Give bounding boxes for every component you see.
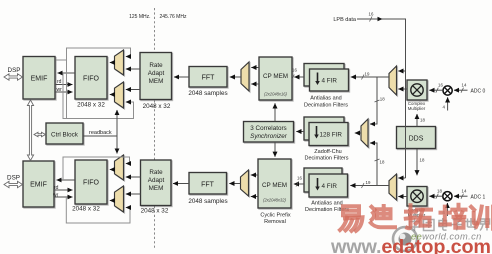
svg-text:18: 18 bbox=[420, 158, 425, 163]
wire mux M8 to 4 FIR (bottom), width 19 bbox=[350, 185, 389, 187]
svg-text:EMIF: EMIF bbox=[31, 76, 48, 83]
watermark char tuo bbox=[406, 205, 431, 228]
svg-text:EMIF: EMIF bbox=[30, 182, 47, 189]
svg-text:4 FIR: 4 FIR bbox=[322, 78, 338, 85]
svg-text:readback: readback bbox=[89, 130, 112, 136]
mux M5 (top FFT input select) bbox=[241, 62, 249, 91]
grey char dian bbox=[439, 218, 447, 230]
block 128 FIR Zadoff-Chu decimation filters (stacked) bbox=[304, 117, 348, 146]
wire FFT to Rate Adapt MEM (top) bbox=[174, 76, 189, 78]
svg-text:Removal: Removal bbox=[264, 219, 286, 225]
svg-text:FFT: FFT bbox=[202, 75, 216, 82]
svg-text:Synchronizer: Synchronizer bbox=[250, 133, 288, 140]
watermark char yi bbox=[340, 206, 363, 231]
wire synchronizer up to top CP MEM bbox=[274, 103, 276, 121]
bus DSP-EMIF bidirectional (top) bbox=[4, 74, 23, 80]
watermark char pei bbox=[440, 205, 465, 228]
block FIFO (bottom) bbox=[75, 160, 107, 204]
svg-text:CP MEM: CP MEM bbox=[262, 182, 287, 189]
wire mux M4 to FIFO (bottom) bbox=[110, 200, 115, 202]
watermark red chinese characters (drawn strokes) bbox=[340, 205, 492, 231]
block FFT (top) bbox=[189, 67, 227, 88]
wire mux M7 to 4 FIR (top), width 19 bbox=[351, 76, 389, 78]
svg-text:18: 18 bbox=[437, 189, 442, 194]
wire complex multiplier to mux M8 input 2 (bottom) bbox=[398, 196, 407, 198]
block 4 FIR antialias decimation filters (bottom, stacked) bbox=[304, 168, 348, 197]
svg-text:16: 16 bbox=[292, 68, 297, 73]
mux M9 (Zadoff-Chu path select) bbox=[361, 119, 368, 147]
wire mux M1 to FIFO (top) bbox=[110, 62, 115, 64]
wire 4 FIR to CP MEM (bottom), width 16 bbox=[294, 183, 304, 185]
svg-text:Antialias and: Antialias and bbox=[311, 200, 343, 206]
watermark char xun bbox=[471, 207, 492, 229]
wire branch to mux M9 top input, width 18 bbox=[370, 77, 377, 124]
svg-text:19: 19 bbox=[365, 72, 370, 77]
wire mux M6 to FFT (bottom) bbox=[229, 183, 240, 185]
svg-text:wr: wr bbox=[53, 193, 59, 199]
svg-text:16: 16 bbox=[369, 12, 374, 17]
svg-text:Adapt: Adapt bbox=[148, 70, 165, 77]
wire bypass loop over top FIFO into mux M1 bbox=[56, 48, 131, 60]
mux M7 (top FIR input select) bbox=[389, 66, 397, 95]
svg-text:FIFO: FIFO bbox=[83, 180, 99, 187]
svg-text:(2x2048x32): (2x2048x32) bbox=[263, 198, 286, 203]
svg-text:14: 14 bbox=[462, 189, 467, 194]
svg-text:16: 16 bbox=[438, 83, 443, 88]
block 3 Correlators Synchronizer bbox=[244, 122, 294, 143]
grey char shi bbox=[465, 218, 477, 230]
wire LPB into mux M8 input 1 bbox=[398, 177, 405, 179]
svg-text:2048 x 32: 2048 x 32 bbox=[72, 206, 100, 213]
wire CP MEM to mux M5 input 1 (top) bbox=[251, 67, 259, 69]
svg-text:2048 samples: 2048 samples bbox=[188, 198, 227, 205]
wire FIFO to EMIF data (top) bbox=[58, 72, 76, 74]
svg-text:wr: wr bbox=[57, 87, 63, 93]
svg-text:DSP: DSP bbox=[7, 175, 20, 182]
wire ADC 1 input, width 14 bbox=[454, 195, 468, 197]
mux M8 (bottom FIR input select) bbox=[389, 174, 397, 200]
mux M2 (top FIFO input select 2) bbox=[115, 82, 124, 108]
wire mixer to complex multiplier (top), width 16 bbox=[429, 89, 443, 91]
block Rate Adapt MEM (top) bbox=[140, 53, 172, 100]
svg-text:CP MEM: CP MEM bbox=[263, 73, 288, 80]
block CP MEM (top) bbox=[259, 57, 292, 100]
svg-text:FFT: FFT bbox=[201, 182, 215, 189]
wire FIFO to EMIF data (bottom) bbox=[57, 179, 76, 181]
svg-text:(2x2048x16): (2x2048x16) bbox=[264, 92, 287, 97]
svg-text:16: 16 bbox=[297, 176, 302, 181]
svg-text:rd: rd bbox=[54, 185, 59, 191]
svg-text:125 MHz.: 125 MHz. bbox=[129, 14, 150, 20]
svg-text:Multiplier: Multiplier bbox=[408, 106, 426, 111]
block 4 FIR antialias decimation filters (top, stacked) bbox=[304, 64, 349, 92]
block FFT (bottom) bbox=[189, 173, 227, 195]
bus Ctrl Block horizontal bbox=[34, 132, 46, 136]
svg-text:MEM: MEM bbox=[149, 78, 164, 85]
multiplier mixer circle (bottom) bbox=[443, 192, 452, 201]
wire CP MEM to mux M6 input 1 (bottom) bbox=[251, 174, 258, 176]
wire DDS to complex multiplier (top), width 18 bbox=[416, 114, 418, 127]
svg-text:DDS: DDS bbox=[409, 136, 424, 143]
svg-text:FIFO: FIFO bbox=[83, 76, 99, 83]
wire mux M3 to FIFO (bottom) bbox=[110, 169, 115, 171]
wire CP MEM to mux M6 input 2 (bottom) bbox=[251, 196, 258, 198]
wire rd EMIF to FIFO (bottom) bbox=[54, 189, 73, 191]
svg-text:rd: rd bbox=[57, 79, 62, 85]
mux M6 (bottom FFT input select) bbox=[241, 170, 249, 196]
svg-text:Zadoff-Chu: Zadoff-Chu bbox=[314, 149, 341, 155]
svg-text:2048 x 32: 2048 x 32 bbox=[143, 103, 171, 110]
svg-text:Decimation Filters: Decimation Filters bbox=[304, 103, 348, 109]
wire LPB into mux M7 input 1 bbox=[398, 70, 405, 72]
wire fs/4 into mixer (top), width 4 bbox=[447, 97, 449, 110]
wire Rate Adapt MEM to mux M2 (top) bbox=[126, 89, 140, 91]
wire FFT to Rate Adapt MEM (bottom) bbox=[173, 183, 189, 185]
svg-text:3 Correlators: 3 Correlators bbox=[250, 125, 286, 132]
wire DDS to complex multiplier (bottom), width 18 bbox=[416, 149, 418, 175]
svg-text:2048 samples: 2048 samples bbox=[188, 90, 227, 97]
svg-text:Antialias and: Antialias and bbox=[310, 96, 342, 102]
wire mixer to complex multiplier (bottom), width 18 bbox=[429, 195, 442, 197]
wire vertical channel segment between EMIF and FIFO (top) bbox=[66, 60, 68, 119]
svg-text:128 FIR: 128 FIR bbox=[320, 132, 343, 139]
svg-text:Rate: Rate bbox=[149, 62, 163, 69]
wire ADC 0 input, width 14 bbox=[454, 89, 468, 91]
block FIFO (top) bbox=[75, 57, 107, 100]
grey char jie bbox=[480, 219, 490, 231]
block complex multiplier (top) bbox=[407, 80, 427, 100]
wire CP MEM to mux M5 input 2 (top) bbox=[251, 83, 259, 85]
watermark grey logo badge bbox=[393, 227, 417, 251]
wire loop under bottom FIFO into mux M4 bbox=[66, 197, 130, 223]
grey char zi bbox=[452, 220, 463, 231]
wire fs/4 into mixer (bottom), width 4 bbox=[446, 203, 448, 216]
svg-text:Decimation Filters: Decimation Filters bbox=[304, 155, 348, 161]
svg-text:18: 18 bbox=[420, 118, 425, 123]
wire 4 FIR to CP MEM (top), width 16 bbox=[294, 76, 304, 78]
wire complex multiplier to mux M7 input 2 (top) bbox=[398, 88, 407, 90]
wire Rate Adapt MEM to mux M1 (top) bbox=[126, 68, 140, 70]
wire mux M9 to 128 FIR bbox=[355, 132, 361, 134]
wire loop over bottom FIFO into mux M3 bbox=[63, 157, 130, 180]
svg-text:14: 14 bbox=[462, 83, 467, 88]
svg-text:Cyclic Prefix: Cyclic Prefix bbox=[260, 213, 291, 219]
block CP MEM (bottom) bbox=[258, 159, 291, 208]
wire wr EMIF to FIFO (top) bbox=[55, 91, 73, 93]
svg-text:19: 19 bbox=[366, 180, 371, 185]
svg-text:LPB data: LPB data bbox=[333, 17, 357, 23]
wire LPB data feed, width 16 bbox=[357, 19, 406, 178]
svg-text:Rate: Rate bbox=[149, 169, 163, 176]
wire readback from Ctrl Block bbox=[83, 135, 117, 137]
svg-text:Adapt: Adapt bbox=[148, 177, 165, 184]
block EMIF (top) bbox=[23, 57, 55, 100]
svg-text:18: 18 bbox=[380, 160, 385, 165]
wire mux M5 to FFT (top) bbox=[230, 76, 241, 78]
grey char zhong bbox=[410, 218, 420, 231]
svg-text:245.76 MHz: 245.76 MHz bbox=[160, 14, 187, 20]
bus Ctrl Block vertical to both EMIFs bbox=[27, 100, 33, 161]
block Rate Adapt MEM (bottom) bbox=[141, 160, 172, 206]
svg-text:MEM: MEM bbox=[149, 185, 164, 192]
grey char guo bbox=[424, 220, 435, 231]
svg-text:www.edatop.com: www.edatop.com bbox=[330, 236, 491, 254]
watermark grey chinese text (drawn strokes) bbox=[410, 218, 490, 231]
svg-text:18: 18 bbox=[380, 97, 385, 102]
wire rd EMIF to FIFO (top) bbox=[55, 84, 73, 86]
svg-text:4: 4 bbox=[443, 105, 446, 110]
mux M1 (top FIFO input select) bbox=[115, 50, 124, 75]
svg-text:Ctrl Block: Ctrl Block bbox=[51, 132, 79, 139]
mux M4 (bottom FIFO input select 2) bbox=[115, 186, 124, 212]
svg-text:ADC 0: ADC 0 bbox=[471, 89, 486, 95]
mux M3 (bottom FIFO input select) bbox=[115, 155, 124, 180]
wire readback loop under top FIFO into mux M2 bbox=[63, 73, 134, 119]
block Ctrl Block bbox=[46, 123, 83, 144]
block complex multiplier (bottom) bbox=[407, 187, 427, 207]
svg-text:4 FIR: 4 FIR bbox=[322, 183, 338, 190]
block EMIF (bottom) bbox=[23, 161, 54, 207]
watermark char di bbox=[371, 206, 395, 227]
svg-text:DSP: DSP bbox=[8, 67, 21, 74]
wire readback up into mux M2 bbox=[116, 110, 118, 136]
svg-text:2048 x 32: 2048 x 32 bbox=[141, 208, 169, 215]
wire 128 FIR to synchronizer bbox=[296, 131, 304, 133]
wire mux M2 to FIFO (top) bbox=[110, 94, 115, 96]
svg-text:2048 x 32: 2048 x 32 bbox=[77, 102, 105, 109]
bus DSP-EMIF bidirectional (bottom) bbox=[4, 181, 23, 187]
block DDS bbox=[397, 127, 436, 149]
wire bottom branch to mux M9 input 2, width 18 bbox=[370, 143, 377, 186]
wire readback down into mux M3 bbox=[116, 136, 118, 154]
wire Rate Adapt MEM to mux M4 (bottom) bbox=[126, 193, 141, 195]
multiplier mixer circle (top) bbox=[443, 86, 452, 95]
wire synchronizer down to bottom CP MEM bbox=[274, 142, 276, 157]
wire wr EMIF to FIFO (bottom) bbox=[54, 196, 73, 198]
wire Rate Adapt MEM to mux M3 (bottom) bbox=[126, 176, 141, 178]
wire dashed clock-domain boundary bbox=[154, 8, 156, 250]
svg-text:ADC 1: ADC 1 bbox=[471, 195, 486, 201]
